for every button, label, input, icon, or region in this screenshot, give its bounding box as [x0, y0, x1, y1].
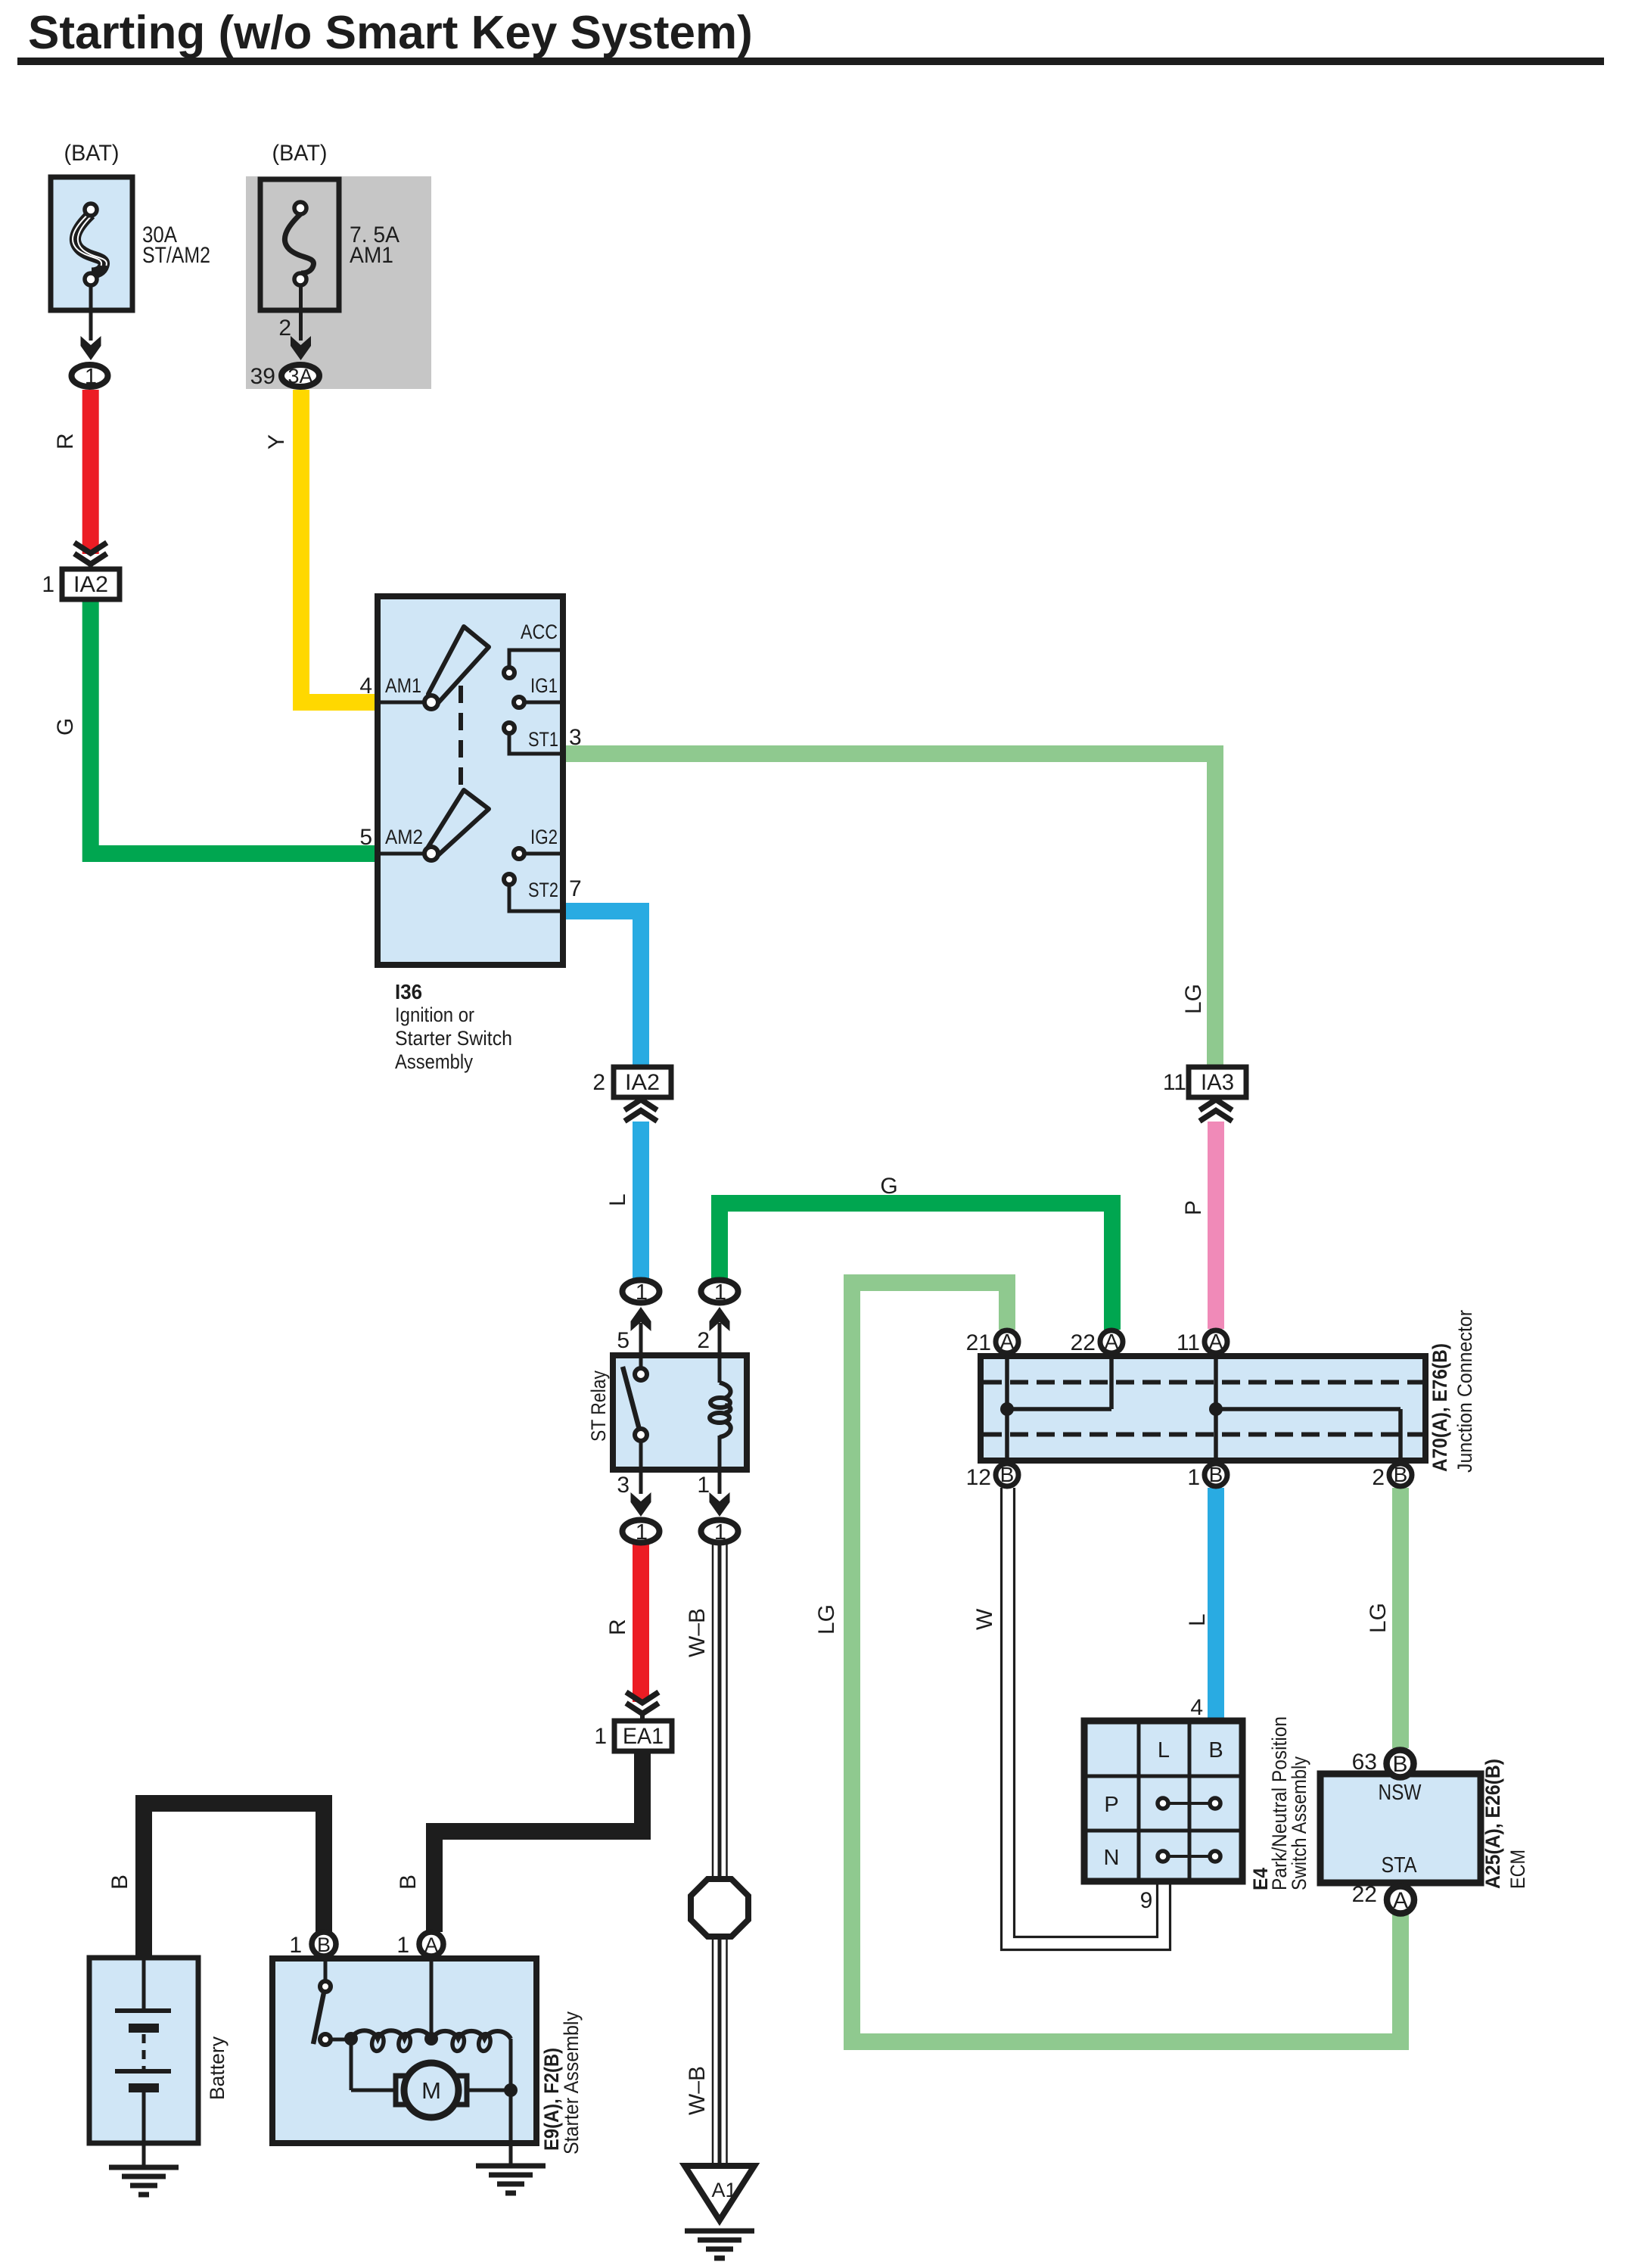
svg-text:2: 2 [278, 316, 291, 341]
svg-text:A: A [1393, 1888, 1408, 1913]
svg-text:NSW: NSW [1379, 1781, 1422, 1805]
svg-text:1: 1 [636, 1520, 648, 1545]
svg-text:ST1: ST1 [528, 728, 558, 751]
svg-text:ECM: ECM [1506, 1850, 1529, 1889]
svg-text:STA: STA [1382, 1853, 1418, 1878]
svg-text:W–B: W–B [685, 1608, 710, 1657]
svg-text:3: 3 [617, 1473, 630, 1498]
svg-text:A25(A), E26(B): A25(A), E26(B) [1481, 1759, 1504, 1889]
svg-text:ST Relay: ST Relay [587, 1370, 610, 1442]
svg-text:ST2: ST2 [528, 879, 558, 901]
svg-text:G: G [53, 718, 78, 736]
svg-text:P: P [1181, 1200, 1206, 1215]
svg-text:P: P [1104, 1793, 1118, 1817]
svg-text:Starting (w/o Smart Key System: Starting (w/o Smart Key System) [28, 7, 753, 59]
svg-text:12: 12 [966, 1465, 991, 1490]
svg-text:63: 63 [1352, 1750, 1377, 1775]
svg-text:5: 5 [617, 1328, 630, 1353]
svg-text:B: B [1392, 1752, 1407, 1777]
svg-text:A: A [1209, 1330, 1223, 1353]
svg-text:LG: LG [814, 1604, 839, 1635]
svg-text:A70(A), E76(B): A70(A), E76(B) [1428, 1343, 1451, 1472]
svg-text:Assembly: Assembly [395, 1050, 473, 1073]
svg-text:L: L [605, 1193, 630, 1206]
svg-text:B: B [1209, 1463, 1223, 1486]
svg-text:IA3: IA3 [1201, 1070, 1234, 1095]
svg-text:(BAT): (BAT) [64, 141, 120, 166]
svg-text:Starter Assembly: Starter Assembly [560, 2011, 583, 2154]
svg-text:EA1: EA1 [623, 1724, 664, 1749]
svg-text:B: B [317, 1934, 331, 1956]
svg-text:11: 11 [1177, 1330, 1200, 1355]
svg-text:4: 4 [359, 674, 372, 698]
svg-text:B: B [1394, 1463, 1408, 1486]
svg-text:IA2: IA2 [625, 1070, 660, 1095]
svg-text:B: B [107, 1874, 132, 1890]
svg-text:AM1: AM1 [350, 243, 393, 268]
svg-text:1: 1 [594, 1724, 607, 1749]
svg-text:LG: LG [1366, 1603, 1391, 1633]
svg-text:1: 1 [636, 1280, 648, 1305]
svg-text:(BAT): (BAT) [272, 141, 328, 166]
svg-text:L: L [1185, 1613, 1210, 1626]
svg-text:9: 9 [1140, 1888, 1153, 1913]
svg-text:1: 1 [1187, 1465, 1200, 1490]
svg-text:1: 1 [85, 365, 97, 389]
svg-text:ST/AM2: ST/AM2 [142, 243, 210, 268]
svg-text:A: A [1000, 1330, 1015, 1353]
svg-text:Battery: Battery [206, 2036, 228, 2100]
svg-text:LG: LG [1181, 984, 1206, 1014]
svg-text:W: W [972, 1608, 997, 1630]
svg-text:A: A [424, 1934, 438, 1956]
svg-text:21: 21 [966, 1330, 991, 1355]
svg-text:5: 5 [359, 825, 372, 850]
svg-text:Y: Y [264, 434, 289, 450]
svg-text:B: B [1000, 1463, 1015, 1486]
svg-text:IG2: IG2 [530, 826, 558, 848]
svg-text:B: B [396, 1874, 421, 1890]
svg-text:1: 1 [714, 1280, 726, 1305]
svg-text:4: 4 [1190, 1695, 1203, 1720]
svg-text:1: 1 [714, 1520, 726, 1545]
svg-text:G: G [880, 1174, 897, 1199]
svg-text:Starter Switch: Starter Switch [395, 1027, 512, 1050]
svg-text:A: A [1105, 1330, 1119, 1353]
svg-text:1: 1 [289, 1933, 302, 1958]
svg-text:1: 1 [396, 1933, 409, 1958]
svg-text:B: B [1208, 1738, 1223, 1762]
svg-text:M: M [421, 2077, 441, 2104]
svg-text:3A: 3A [288, 365, 312, 387]
svg-text:3: 3 [569, 725, 582, 750]
svg-text:R: R [53, 433, 78, 450]
svg-text:1: 1 [697, 1473, 710, 1498]
svg-text:I36: I36 [395, 980, 422, 1003]
svg-text:11: 11 [1163, 1070, 1186, 1095]
svg-text:2: 2 [1372, 1465, 1385, 1490]
svg-text:2: 2 [592, 1070, 605, 1095]
svg-text:L: L [1158, 1738, 1170, 1762]
svg-text:IG1: IG1 [530, 674, 558, 697]
svg-text:2: 2 [697, 1328, 710, 1353]
svg-text:22: 22 [1071, 1330, 1096, 1355]
svg-text:Junction Connector: Junction Connector [1453, 1310, 1476, 1473]
svg-text:1: 1 [42, 572, 54, 597]
svg-text:IA2: IA2 [73, 572, 108, 597]
svg-text:AM1: AM1 [385, 674, 421, 697]
svg-text:39: 39 [250, 364, 275, 389]
svg-text:Switch Assembly: Switch Assembly [1288, 1756, 1310, 1890]
svg-text:7: 7 [569, 876, 582, 901]
svg-text:ACC: ACC [521, 621, 558, 643]
svg-text:A1: A1 [711, 2179, 736, 2201]
svg-text:N: N [1104, 1846, 1120, 1870]
svg-text:R: R [605, 1619, 630, 1635]
svg-text:22: 22 [1352, 1882, 1377, 1907]
svg-text:Ignition or: Ignition or [395, 1003, 474, 1026]
svg-text:W–B: W–B [685, 2066, 710, 2115]
svg-text:AM2: AM2 [385, 826, 423, 848]
